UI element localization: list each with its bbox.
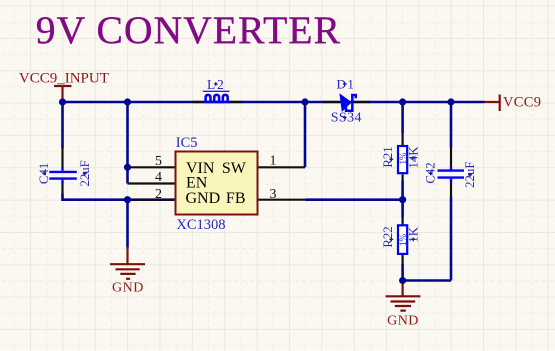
svg-text:5: 5 [155,154,162,169]
svg-text:FB: FB [226,190,246,207]
svg-text:R22: R22 [381,226,395,247]
svg-text:1: 1 [270,154,277,169]
svg-text:GND: GND [186,190,221,207]
svg-text:VCC9: VCC9 [503,95,541,111]
svg-text:XC1308: XC1308 [176,217,225,233]
svg-text:VCC9_INPUT: VCC9_INPUT [19,70,109,86]
svg-text:9V CONVERTER: 9V CONVERTER [36,8,341,52]
svg-text:2: 2 [155,187,162,202]
svg-text:R21: R21 [381,146,395,167]
svg-text:GND: GND [387,314,419,329]
svg-text:SW: SW [222,160,247,177]
svg-text:3: 3 [270,187,277,202]
svg-text:GND: GND [112,280,144,295]
svg-text:4: 4 [155,170,162,185]
svg-text:IC5: IC5 [176,135,198,151]
svg-text:EN: EN [186,175,208,192]
